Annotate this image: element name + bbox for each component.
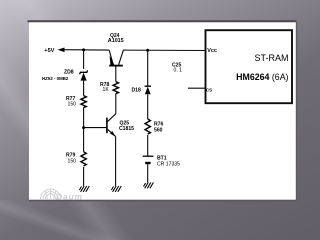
ground (left, under R79) [79, 186, 89, 192]
resistor R78 [113, 82, 118, 94]
svg-text:560: 560 [154, 128, 163, 134]
white schematic panel [28, 20, 298, 201]
wire D18 to R76 [147, 94, 149, 119]
svg-text:CR 17335: CR 17335 [157, 162, 180, 168]
wire D18 branch top [147, 50, 149, 85]
zener diode ZD8 [80, 70, 88, 80]
resistor R77 [81, 96, 86, 108]
svg-text:HM6264 (6A): HM6264 (6A) [236, 72, 288, 82]
node junction rail-D18 [146, 49, 149, 52]
wire base Q25 [84, 127, 107, 129]
+5V rail wire left [63, 49, 109, 51]
IC box ST-RAM HM6264 [206, 30, 293, 103]
ground (under Q25 emitter) [111, 186, 121, 192]
svg-text:0. 1: 0. 1 [174, 68, 183, 74]
svg-text:ZD8: ZD8 [64, 70, 74, 76]
+5V rail wire right [123, 49, 205, 51]
svg-text:D18: D18 [132, 87, 142, 93]
battery BT1 [143, 156, 154, 163]
arrow +5V [58, 48, 65, 53]
node junction rail-zener [82, 48, 85, 51]
svg-text:A1015: A1015 [108, 38, 124, 44]
resistor R79 [81, 152, 86, 166]
wire R77 to node [83, 108, 85, 152]
wire battery to ground [147, 164, 149, 182]
resistor R76 [145, 119, 150, 134]
watermark logo arcs [41, 189, 61, 199]
svg-text:Vcc: Vcc [207, 48, 217, 54]
wire CS pin [188, 87, 206, 89]
svg-text:1K: 1K [103, 87, 110, 93]
wire R78 to Q25 collector [115, 94, 117, 114]
wire R79 to ground [83, 167, 85, 186]
ground (under battery) [144, 183, 154, 189]
svg-text:150: 150 [68, 159, 77, 165]
wire Q25 emitter to ground [115, 137, 117, 187]
wire zener branch [83, 50, 85, 69]
svg-text:C1815: C1815 [119, 126, 134, 132]
node junction R77-base [82, 126, 85, 129]
wire R76 to battery [147, 135, 149, 156]
diode D18 [145, 86, 151, 94]
svg-text:ST-RAM: ST-RAM [254, 53, 288, 63]
svg-text:150: 150 [68, 102, 77, 108]
svg-text:Daum: Daum [56, 192, 83, 202]
transistor Q24 [109, 50, 123, 66]
transistor Q25 [107, 114, 116, 137]
svg-text:HZ53 - 0MB2: HZ53 - 0MB2 [42, 76, 69, 81]
wire Q24 base to R78 [115, 66, 117, 81]
svg-text:+5V: +5V [44, 48, 54, 54]
svg-text:CS: CS [206, 88, 212, 93]
wire zener to R77 [83, 81, 85, 96]
